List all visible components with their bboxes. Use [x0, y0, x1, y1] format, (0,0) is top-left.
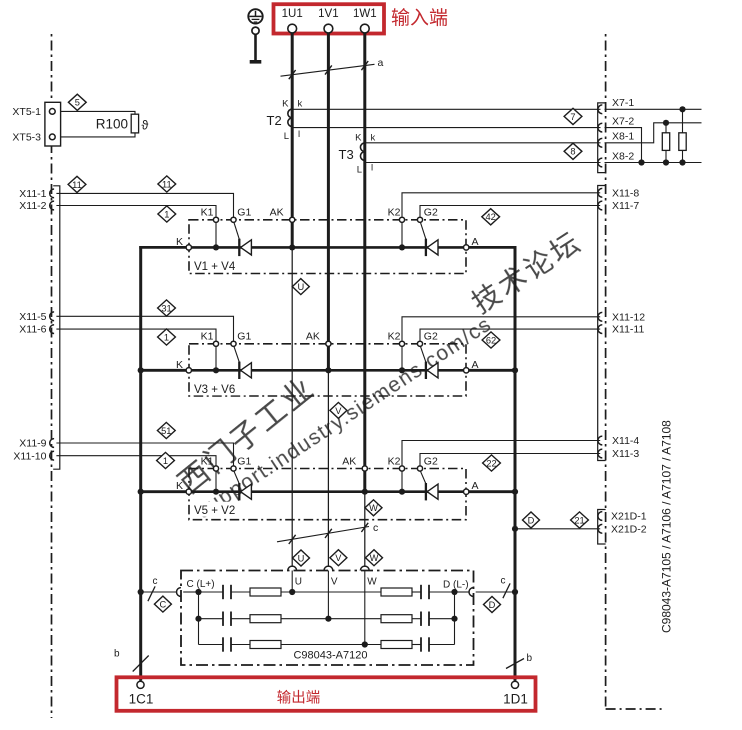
phase drop junction row 3 [364, 571, 366, 645]
label V5 + V2 [194, 502, 246, 517]
svg-text:l: l [371, 162, 373, 173]
junction 1C1 bus [138, 367, 144, 373]
slash on sense line [325, 529, 332, 538]
wire D to 1D1 bus [476, 591, 515, 593]
svg-text:c: c [153, 576, 158, 587]
svg-text:31: 31 [161, 303, 171, 313]
svg-text:C (L+): C (L+) [187, 579, 215, 590]
svg-text:T3: T3 [339, 147, 354, 162]
svg-text:AK: AK [306, 331, 320, 343]
wire T2.k to X7-1 [292, 108, 600, 110]
svg-text:V3 + V6: V3 + V6 [194, 384, 235, 396]
svg-text:V: V [331, 577, 338, 588]
terminal X7-2 [598, 123, 602, 132]
thyristor module box V3 + V6 [189, 344, 466, 396]
pin G2 [417, 217, 422, 222]
diamond 1 (V3+V6) [158, 329, 176, 345]
thyristor V4 gate lead [421, 223, 427, 241]
svg-text:1C1: 1C1 [129, 692, 154, 707]
slash on sense line [361, 523, 368, 532]
svg-text:K1: K1 [201, 207, 214, 219]
diamond 11 [158, 176, 176, 192]
svg-text:5: 5 [75, 98, 80, 108]
svg-text:k: k [371, 132, 376, 143]
pin K1 [213, 466, 218, 471]
resistor row 2 left [250, 615, 281, 623]
junction 1C1 bus [138, 489, 144, 495]
wire X11-4 to K2 [402, 441, 600, 466]
svg-text:X11-9: X11-9 [19, 438, 46, 450]
output terminal red box [117, 677, 536, 711]
pin K1 [213, 217, 218, 222]
svg-text:X7-2: X7-2 [612, 115, 634, 127]
terminal block XT5 [45, 102, 61, 146]
svg-text:c: c [501, 576, 506, 587]
svg-text:C98043-A7120: C98043-A7120 [293, 650, 367, 662]
svg-text:U: U [295, 577, 302, 588]
node W marker [365, 500, 382, 516]
capacitor row 2 left [222, 612, 224, 626]
right board border (dash-dot) [605, 34, 607, 707]
svg-text:输出端: 输出端 [277, 690, 321, 707]
slash on sense line [289, 535, 296, 544]
svg-text:K: K [355, 132, 362, 143]
thyristor module box V5 + V2 [189, 469, 466, 520]
wire X11-11 to G2 [420, 329, 600, 341]
svg-text:X21D-2: X21D-2 [611, 523, 647, 535]
wire X11-8 to K2 [402, 193, 600, 217]
wire K to 1C1 bus [139, 490, 186, 493]
node W marker 2 [366, 550, 383, 566]
thyristor V2 gate lead [421, 471, 427, 484]
label V3 + V6 [194, 380, 246, 395]
svg-text:11: 11 [162, 179, 172, 189]
svg-text:X11-7: X11-7 [612, 200, 639, 212]
label V1 + V4 [194, 257, 246, 272]
terminal U block [288, 566, 297, 570]
svg-text:K1: K1 [201, 331, 214, 343]
thyristor V1 [238, 239, 240, 256]
wire T2.l to X7-2 [292, 127, 600, 129]
wire X11-12 to K2 [402, 317, 600, 341]
svg-text:1: 1 [164, 209, 169, 219]
resistor burden R (left) [665, 123, 667, 133]
wire snubber left rail [198, 592, 200, 645]
svg-text:X11-3: X11-3 [612, 448, 639, 460]
svg-text:G1: G1 [237, 207, 251, 219]
svg-text:b: b [527, 653, 533, 664]
pin G1 [231, 217, 236, 222]
wire X11-2 to K1 [56, 206, 216, 217]
svg-text:L: L [284, 131, 289, 142]
pin G2 [417, 466, 422, 471]
svg-text:8: 8 [570, 147, 575, 157]
svg-text:K2: K2 [388, 455, 401, 467]
svg-text:R100: R100 [96, 117, 128, 132]
svg-text:XT5-1: XT5-1 [12, 106, 41, 118]
svg-text:X11-4: X11-4 [612, 435, 639, 447]
svg-text:1V1: 1V1 [318, 8, 338, 20]
node V marker 2 [330, 550, 347, 566]
diamond 21 [571, 512, 589, 528]
slash on phase line [361, 61, 368, 70]
resistor row 3 left [250, 641, 281, 649]
diamond 51 [157, 422, 175, 438]
svg-text:W: W [369, 503, 378, 513]
junction 1D1 bus [512, 489, 518, 495]
pin K2 [399, 217, 404, 222]
wire X11-9 to G1 [56, 443, 233, 466]
svg-text:1U1: 1U1 [282, 8, 303, 20]
resistor row 1 right [381, 588, 412, 596]
wire A to 1D1 bus [469, 246, 517, 249]
svg-text:X11-2: X11-2 [19, 200, 46, 212]
diamond 7 [564, 108, 582, 124]
svg-text:G2: G2 [424, 455, 438, 467]
3-phase slash marker a (top) [281, 64, 375, 76]
svg-text:U: U [297, 282, 304, 292]
pin AK [362, 466, 367, 471]
diamond C [154, 596, 171, 612]
svg-text:输入端: 输入端 [391, 7, 448, 29]
svg-text:V: V [335, 406, 342, 416]
svg-text:V5 + V2: V5 + V2 [194, 505, 235, 517]
terminal 1C1 [137, 681, 144, 688]
terminal X11-1 [50, 189, 54, 198]
wire C to 1C1 bus [141, 591, 177, 593]
thyristor V5 [238, 483, 240, 500]
wire phase 1W1 (thick) [363, 32, 366, 491]
svg-text:G1: G1 [237, 331, 251, 343]
node K [186, 489, 191, 494]
diamond 1 (V1+V4) [158, 206, 176, 222]
terminal X11-11 [598, 325, 602, 334]
terminal W block [360, 566, 369, 570]
node A [464, 489, 469, 494]
slash on phase line [325, 65, 332, 74]
svg-text:X8-1: X8-1 [612, 131, 634, 143]
terminal X21D-2 [598, 524, 602, 533]
terminal X11-3 [598, 449, 602, 458]
phase drop junction row 1 [291, 571, 293, 593]
capacitor row 3 right [420, 637, 422, 651]
wire K to 1C1 bus [139, 246, 186, 249]
terminal X11-4 [598, 436, 602, 445]
pin K2 [399, 341, 404, 346]
wire A to 1D1 bus [469, 490, 517, 493]
ground (PE) symbol [248, 9, 262, 62]
thyristor V3 gate lead [234, 347, 240, 364]
input terminal red box [274, 4, 385, 33]
svg-text:X11-8: X11-8 [612, 187, 639, 199]
thyristor V1 gate lead [234, 223, 240, 241]
svg-text:22: 22 [486, 458, 496, 468]
svg-text:X11-10: X11-10 [13, 450, 46, 462]
diamond D2 [484, 597, 501, 613]
pin G1 [231, 466, 236, 471]
resistor row 1 left [250, 588, 281, 596]
wire phase 1U1 sense (thin) [291, 247, 293, 566]
svg-text:K: K [282, 99, 289, 110]
wire phase 1V1 sense (thin) [327, 370, 329, 567]
svg-text:K2: K2 [388, 207, 401, 219]
wire 1C1 bus (cathode) [139, 246, 142, 681]
terminal X11-2 [50, 201, 54, 210]
svg-text:C98043-A7105 / A7106 / A7107 /: C98043-A7105 / A7106 / A7107 / A7108 [660, 420, 674, 633]
diamond 42 [482, 209, 500, 225]
current transformer T3 [360, 143, 364, 161]
wire X11-5 to G1 [56, 316, 233, 341]
slash on phase line [289, 70, 296, 79]
resistor R100 (thermistor) [61, 111, 135, 136]
connector bracket left X11 [53, 186, 60, 469]
wire X7-1 extension [605, 108, 702, 110]
svg-text:K1: K1 [201, 455, 214, 467]
phase drop junction row 2 [327, 571, 329, 619]
diamond D [523, 512, 540, 528]
node A [464, 368, 469, 373]
svg-text:W: W [367, 577, 377, 588]
thyristor V5 gate lead [234, 471, 240, 484]
node V marker [330, 402, 347, 418]
node K [186, 245, 191, 250]
svg-text:D: D [489, 600, 496, 610]
svg-text:11: 11 [72, 180, 82, 190]
svg-text:D: D [528, 515, 535, 525]
svg-text:b: b [114, 649, 120, 660]
terminal X11-9 [50, 439, 54, 448]
wire X11-1 to G1 [56, 193, 233, 216]
snubber row 1 wire [199, 591, 224, 593]
thyristor V2 [425, 483, 427, 500]
wire phase 1U1 (thick) [291, 32, 294, 247]
terminal X21D-1 [598, 512, 602, 521]
connector bracket X7/X8 [598, 103, 606, 173]
terminal X11-7 [598, 201, 602, 210]
terminal X11-5 [50, 312, 54, 321]
diamond 8 [564, 143, 582, 159]
slash b on 1D1 [506, 659, 524, 669]
junction 1D1 bus [512, 367, 518, 373]
connector bracket right X11 [598, 186, 606, 461]
node U marker 2 [293, 550, 310, 566]
thyristor V3 [238, 362, 240, 379]
wire X8-1 extension raised [605, 123, 702, 143]
svg-text:X11-1: X11-1 [19, 188, 46, 200]
svg-text:42: 42 [486, 212, 496, 222]
module bus wire K to A [188, 490, 467, 493]
connector bracket X21D [598, 510, 606, 545]
terminal 1D1 [511, 681, 518, 688]
svg-text:X11-6: X11-6 [19, 324, 46, 336]
diamond 11 [68, 176, 86, 192]
wire X8-2 extension [605, 162, 702, 164]
node K [186, 368, 191, 373]
svg-text:51: 51 [161, 426, 171, 436]
wire X11-6 to K1 [56, 329, 216, 341]
terminal D (L-) [469, 588, 473, 597]
terminal C (L+) [176, 588, 180, 597]
node A [464, 245, 469, 250]
thyristor V6 gate lead [421, 347, 427, 364]
capacitor row 2 right [420, 612, 422, 626]
diamond 62 [482, 332, 500, 348]
resistor row 2 right [381, 615, 412, 623]
wire snubber right rail [454, 592, 456, 645]
svg-text:T2: T2 [267, 113, 282, 128]
svg-text:AK: AK [342, 455, 356, 467]
terminal X11-8 [598, 188, 602, 197]
wire T3.l to X8-2 [365, 162, 601, 164]
wire X7-2 extension to X8-2 [605, 128, 642, 163]
svg-text:21: 21 [574, 515, 584, 525]
wire T3.k to X8-1 [365, 142, 601, 144]
watermark [173, 225, 588, 523]
pin K2 [399, 466, 404, 471]
snubber module C98043-A7120 box [181, 571, 474, 666]
terminal X8-2 [598, 158, 602, 167]
pin G2 [417, 341, 422, 346]
wire K to 1C1 bus [139, 369, 186, 372]
svg-text:X11-5: X11-5 [19, 311, 46, 323]
thyristor V4 [425, 239, 427, 256]
svg-text:X11-11: X11-11 [612, 324, 644, 336]
current transformer T2 [288, 109, 292, 127]
terminal X11-12 [598, 312, 602, 321]
svg-text:1W1: 1W1 [353, 8, 377, 20]
svg-text:a: a [378, 57, 384, 69]
svg-text:XT5-3: XT5-3 [12, 131, 41, 143]
snubber row 2 wire [199, 618, 224, 620]
junction dots burden network [679, 106, 685, 112]
diamond 31 [158, 300, 176, 316]
svg-text:62: 62 [486, 335, 496, 345]
left board border (dash-dot) [51, 34, 53, 718]
svg-text:V: V [335, 553, 342, 563]
terminal X7-1 [598, 105, 602, 114]
svg-text:1: 1 [164, 332, 169, 342]
svg-text:X8-2: X8-2 [612, 150, 634, 162]
resistor burden R (right) [682, 109, 684, 133]
thyristor V6 [425, 362, 427, 379]
wire phase 1W1 sense (thin) [364, 492, 366, 567]
svg-text:X11-12: X11-12 [612, 311, 645, 323]
pin AK [326, 341, 331, 346]
svg-text:V1 + V4: V1 + V4 [194, 261, 236, 273]
node U marker [292, 279, 309, 295]
svg-text:X7-1: X7-1 [612, 97, 634, 109]
svg-text:1D1: 1D1 [503, 692, 528, 707]
svg-text:G1: G1 [237, 455, 251, 467]
wire 1D1 to X21D-2 [515, 528, 600, 530]
module bus wire K to A [188, 246, 467, 249]
svg-text:1: 1 [163, 456, 168, 466]
svg-text:k: k [298, 99, 303, 110]
diamond 22 [483, 455, 501, 471]
svg-text:G2: G2 [424, 207, 438, 219]
svg-text:K2: K2 [388, 331, 401, 343]
capacitor row 3 left [222, 637, 224, 651]
svg-text:W: W [370, 553, 379, 563]
terminal X11-10 [50, 451, 54, 460]
diamond 1 (V5+V2) [157, 452, 175, 468]
terminal X8-1 [598, 138, 602, 147]
wire 1D1 bus (anode) [514, 246, 517, 681]
svg-text:AK: AK [270, 207, 284, 219]
terminal V block [324, 566, 333, 570]
capacitor row 1 left [222, 585, 224, 599]
pin K1 [213, 341, 218, 346]
resistor row 3 right [381, 641, 412, 649]
snubber row 3 wire [199, 644, 224, 646]
svg-text:7: 7 [570, 112, 575, 122]
wire X11-3 to G2 [420, 454, 600, 466]
svg-text:U: U [298, 553, 305, 563]
wire phase 1V1 (thick) [327, 32, 330, 370]
terminal X11-6 [50, 325, 54, 334]
pin AK [290, 217, 295, 222]
svg-text:C: C [160, 600, 167, 610]
wire A to 1D1 bus [469, 369, 517, 372]
svg-text:ϑ: ϑ [142, 119, 149, 133]
module bus wire K to A [188, 369, 467, 372]
svg-text:D (L-): D (L-) [443, 580, 469, 591]
3-phase slash marker c (bottom) [277, 527, 369, 542]
svg-text:G2: G2 [424, 331, 438, 343]
diamond 5 [68, 94, 86, 110]
label C98043-A7120 [290, 646, 372, 660]
wire X11-7 to G2 [420, 206, 600, 217]
svg-text:L: L [357, 164, 362, 175]
slash b on 1C1 [133, 656, 149, 672]
svg-text:X21D-1: X21D-1 [611, 510, 647, 522]
bottom right border corner [606, 708, 662, 710]
thyristor module box V1 + V4 [189, 220, 466, 274]
svg-text:l: l [298, 129, 300, 140]
capacitor row 1 right [420, 585, 422, 599]
wire X11-10 to K1 [56, 456, 216, 466]
pin G1 [231, 341, 236, 346]
svg-text:c: c [373, 522, 378, 534]
